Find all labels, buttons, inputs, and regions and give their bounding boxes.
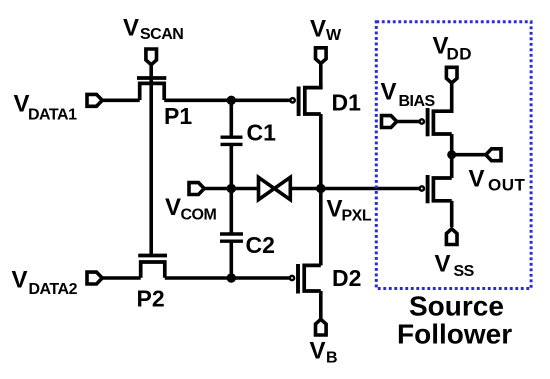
svg-text:V: V: [327, 196, 343, 223]
wire V_DATA1 to P1: [102, 99, 140, 103]
diode pair (bowtie sensing element): [259, 177, 291, 199]
svg-text:V: V: [310, 338, 326, 365]
node dot P2 drain / C2 / D2 gate: [227, 273, 236, 282]
svg-text:V: V: [310, 16, 326, 43]
wire D1 source to V_PXL node: [319, 114, 323, 189]
svg-text:Source: Source: [409, 291, 504, 322]
svg-text:BIAS: BIAS: [399, 93, 436, 110]
wire V_COM to node: [204, 187, 231, 191]
svg-text:OUT: OUT: [488, 176, 526, 195]
svg-text:P1: P1: [164, 103, 192, 129]
wire diode pair to V_PXL node: [290, 187, 320, 191]
wire D2 source to V_B pin: [319, 291, 323, 320]
wire V_DATA2 to P2: [102, 276, 141, 280]
label V_DATA1: [14, 91, 78, 124]
capacitor C2: [220, 189, 243, 279]
label V_COM: [165, 194, 217, 224]
wire output node to driver transistor: [450, 155, 454, 178]
node output: [447, 150, 456, 159]
dashed box source follower: [376, 22, 531, 289]
node dot P1 drain / C1 / D1 gate: [227, 96, 236, 105]
svg-text:V: V: [12, 267, 28, 294]
svg-text:V: V: [381, 79, 397, 106]
wire bias transistor to output node: [450, 134, 454, 155]
transistor source follower driver: [420, 175, 452, 203]
label V_DD: [433, 33, 473, 64]
svg-text:DD: DD: [447, 45, 473, 64]
svg-text:P2: P2: [137, 286, 165, 312]
wire node to diode pair: [231, 187, 258, 191]
pin V_BIAS: [382, 116, 397, 128]
label V_SS: [435, 251, 475, 281]
pin V_SCAN: [146, 49, 157, 65]
pin V_SS: [446, 229, 457, 245]
wire output node to V_OUT pin: [452, 153, 485, 157]
pin V_DD: [446, 67, 457, 83]
wire V_PXL to source follower gate: [321, 187, 419, 191]
pin V_W: [316, 48, 327, 64]
svg-text:C2: C2: [246, 232, 275, 258]
label V_DATA2: [12, 267, 78, 299]
svg-text:W: W: [326, 27, 342, 44]
svg-text:D1: D1: [332, 90, 362, 116]
transistor P2: [138, 256, 167, 278]
svg-text:SCAN: SCAN: [140, 26, 183, 43]
pin V_DATA1: [87, 94, 102, 106]
transistor D1: [290, 86, 320, 116]
svg-text:B: B: [326, 350, 338, 367]
svg-text:SS: SS: [454, 263, 475, 280]
label V_BIAS: [381, 79, 436, 111]
svg-text:V: V: [123, 15, 139, 42]
svg-text:COM: COM: [181, 207, 217, 224]
pin V_B: [316, 319, 327, 335]
pin V_DATA2: [87, 272, 102, 284]
label V_B: [310, 338, 339, 367]
svg-text:DATA2: DATA2: [29, 281, 78, 298]
pin V_OUT: [486, 149, 501, 161]
svg-text:V: V: [165, 194, 181, 221]
transistor bias (source follower load): [420, 108, 452, 136]
svg-text:PXL: PXL: [342, 208, 372, 225]
svg-text:DATA1: DATA1: [28, 107, 77, 124]
svg-text:C1: C1: [247, 120, 277, 146]
wire V_BIAS to bias transistor gate: [397, 120, 419, 124]
label Source Follower: [397, 291, 512, 350]
svg-text:V: V: [469, 166, 485, 193]
label V_W: [310, 16, 342, 45]
transistor D2: [290, 264, 321, 294]
label V_OUT: [469, 166, 526, 195]
node V_PXL: [316, 184, 325, 193]
junction dot C1 / C2 / V_COM: [227, 184, 236, 193]
label V_PXL: [327, 196, 372, 225]
wire driver transistor to V_SS pin: [450, 201, 454, 227]
transistor P1: [137, 78, 166, 100]
label V_SCAN: [123, 15, 183, 44]
svg-text:Follower: Follower: [397, 319, 512, 350]
svg-text:V: V: [435, 251, 451, 278]
wire P2 to D2 gate: [165, 276, 289, 280]
wire V_SCAN to P1 and P2 gates: [149, 65, 153, 255]
pin V_COM: [189, 183, 204, 195]
wire P1 to D1 gate: [164, 99, 290, 103]
wire V_PXL node to D2 drain: [319, 189, 323, 266]
capacitor C1: [221, 100, 243, 188]
wire V_DD to bias transistor: [450, 83, 454, 113]
svg-text:D2: D2: [332, 265, 361, 291]
wire V_W to D1 drain: [319, 64, 323, 90]
